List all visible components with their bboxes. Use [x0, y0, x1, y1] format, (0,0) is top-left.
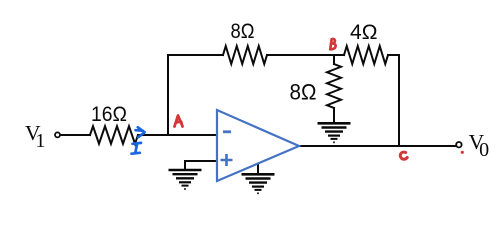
svg-text:16Ω: 16Ω [91, 103, 127, 126]
svg-text:8Ω: 8Ω [231, 20, 255, 43]
svg-text:4Ω: 4Ω [350, 21, 378, 44]
svg-text:8Ω: 8Ω [290, 80, 317, 105]
